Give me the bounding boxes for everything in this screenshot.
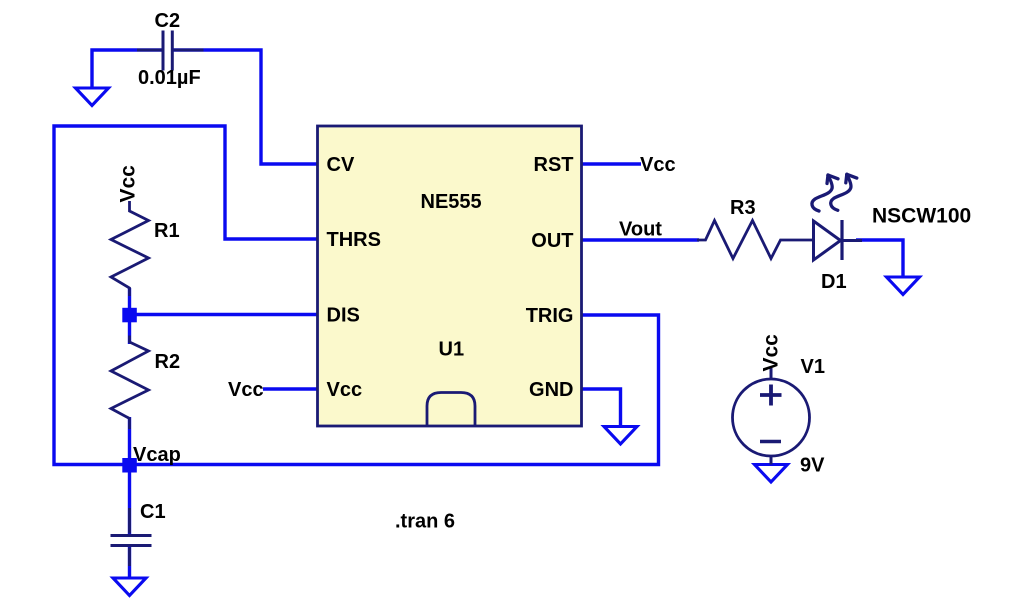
svg-text:Vcc: Vcc <box>228 379 264 401</box>
svg-text:NSCW100: NSCW100 <box>872 205 971 228</box>
svg-text:Vcc: Vcc <box>117 165 140 203</box>
svg-text:C2: C2 <box>155 10 181 32</box>
svg-text:Vcc: Vcc <box>640 154 676 176</box>
svg-text:GND: GND <box>529 379 573 401</box>
svg-text:C1: C1 <box>140 501 166 523</box>
svg-text:V1: V1 <box>801 356 825 378</box>
svg-text:9V: 9V <box>800 455 825 477</box>
svg-text:D1: D1 <box>821 271 847 293</box>
svg-text:DIS: DIS <box>327 305 360 327</box>
svg-text:R1: R1 <box>154 220 180 242</box>
svg-text:0.01µF: 0.01µF <box>138 67 201 89</box>
svg-text:Vcc: Vcc <box>760 334 783 372</box>
svg-text:RST: RST <box>534 154 574 176</box>
svg-text:OUT: OUT <box>531 230 573 252</box>
svg-text:Vcc: Vcc <box>327 379 363 401</box>
svg-text:THRS: THRS <box>327 229 381 251</box>
svg-text:R3: R3 <box>730 197 756 219</box>
svg-text:Vcap: Vcap <box>133 444 181 466</box>
svg-text:TRIG: TRIG <box>526 305 574 327</box>
svg-text:R2: R2 <box>155 351 181 373</box>
svg-text:U1: U1 <box>439 339 465 361</box>
svg-text:.tran 6: .tran 6 <box>395 511 455 533</box>
svg-text:NE555: NE555 <box>421 191 482 213</box>
svg-text:Vout: Vout <box>619 219 662 241</box>
svg-text:CV: CV <box>327 154 355 176</box>
